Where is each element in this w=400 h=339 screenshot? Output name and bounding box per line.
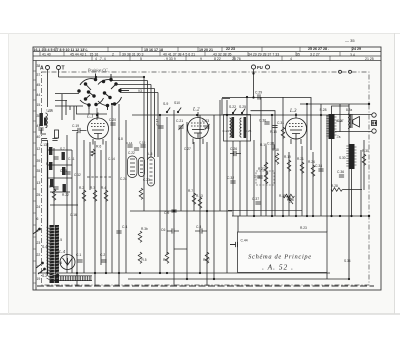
wire PU down: [253, 70, 255, 98]
svg-text:25: 25: [37, 193, 41, 197]
chassis dashed bus (bottom heavy dashed line): [37, 285, 374, 287]
capacitor C.37: [252, 197, 261, 204]
left component stack: [48, 147, 78, 205]
svg-text:R.16: R.16: [260, 143, 267, 147]
potentiometer R.26: [279, 194, 294, 204]
wire HT bus left: [130, 210, 232, 212]
switch S-9: [163, 102, 170, 113]
svg-text:C.2: C.2: [100, 253, 105, 257]
oscillator coil form 1: [128, 156, 138, 178]
wire v266: [265, 146, 267, 216]
wire bundle b4: [154, 89, 156, 158]
svg-text:21 25: 21 25: [365, 57, 374, 61]
capacitor C.26: [230, 147, 241, 156]
svg-text:S.4: S.4: [42, 245, 47, 249]
svg-text:C.19: C.19: [72, 124, 79, 128]
resistor R.3: [90, 186, 97, 201]
svg-text:.7a: .7a: [336, 135, 341, 139]
svg-text:3 2 27: 3 2 27: [310, 52, 320, 56]
wire v247: [246, 97, 248, 216]
wire v214: [213, 115, 215, 279]
wire v240: [239, 141, 241, 216]
wire wafer2 upper-right lead: [116, 84, 151, 86]
wire bundle b3: [150, 85, 152, 158]
svg-text:T: T: [62, 66, 65, 72]
outer drawing border frame: [33, 47, 381, 290]
wire nested loop 5: [73, 106, 75, 120]
svg-text:C.23: C.23: [202, 119, 209, 123]
step wire near C8: [174, 210, 302, 249]
title box: [238, 232, 328, 273]
svg-text:L.R: L.R: [48, 109, 54, 113]
svg-text:R.27: R.27: [258, 167, 265, 171]
resistor R.2: [79, 186, 86, 201]
rotary wafer switch W1: [78, 74, 104, 110]
capacitor C.32: [227, 176, 236, 183]
svg-text:C6: C6: [161, 228, 165, 232]
terminal PU pair: [251, 65, 269, 70]
svg-text:C.11: C.11: [68, 157, 75, 161]
capacitor C.1: [76, 253, 83, 262]
wire v207: [206, 142, 208, 286]
wire v277: [251, 111, 276, 216]
capacitor C.2: [100, 253, 107, 262]
svg-text:C.24: C.24: [120, 177, 127, 181]
svg-text:6: 6: [37, 217, 39, 221]
resistor R.13: [196, 194, 203, 208]
wire bundle b2: [147, 81, 149, 161]
svg-text:C.16: C.16: [70, 213, 77, 217]
wire top bus: [59, 76, 145, 78]
svg-text:S.7: S.7: [60, 147, 65, 151]
wire dashed AVC segment: [87, 176, 112, 178]
wire IF1 top lead: [222, 99, 230, 115]
terminal A: [40, 66, 50, 72]
svg-text:R.3: R.3: [90, 186, 95, 190]
wire v67: [66, 135, 68, 273]
svg-text:R.2: R.2: [79, 186, 84, 190]
svg-text:S.8: S.8: [118, 137, 123, 141]
svg-text:R.27: R.27: [203, 258, 210, 262]
svg-text:12: 12: [37, 147, 41, 151]
wire HT bus right: [232, 215, 369, 217]
top ruler row 2 numbers: [42, 52, 355, 56]
svg-text:C.15: C.15: [60, 169, 67, 173]
inner dash-dot border: [42, 72, 370, 285]
resistor R.18: [272, 148, 279, 164]
svg-text:C.20: C.20: [109, 118, 116, 122]
wire v307: [306, 104, 308, 216]
dial lamps strip: [54, 276, 92, 281]
svg-text:C.22: C.22: [128, 151, 135, 155]
svg-text:C.14: C.14: [126, 141, 133, 145]
svg-text:39: 39: [37, 159, 41, 163]
wire v289: [288, 152, 290, 216]
svg-text:V3: V3: [138, 89, 142, 93]
svg-text:S.34: S.34: [344, 259, 351, 263]
svg-text:R.4: R.4: [101, 186, 106, 190]
wire wafer2 right lead a: [120, 88, 155, 90]
wire v313: [312, 152, 314, 216]
svg-text:40: 40: [37, 135, 41, 139]
wire v101: [100, 150, 102, 265]
svg-text:C.17: C.17: [156, 119, 160, 126]
svg-text:S.22: S.22: [229, 105, 236, 109]
svg-text:S.28: S.28: [320, 108, 327, 112]
wire heavy main vertical: [47, 143, 49, 273]
top ruler row 3 numbers: [95, 57, 374, 61]
wire v364: [363, 140, 365, 190]
tube L2: [188, 108, 209, 145]
svg-text:C.32: C.32: [227, 176, 234, 180]
resistor R.6 below L1: [91, 145, 101, 157]
svg-text:C.28: C.28: [267, 142, 274, 146]
wire v220: [219, 100, 221, 211]
IF transformer T2: [320, 108, 343, 139]
resistor R.3b: [138, 227, 148, 242]
svg-text:35: 35: [37, 169, 41, 173]
svg-text:5: 5: [140, 57, 142, 61]
svg-text:C.9: C.9: [164, 211, 169, 215]
svg-text:4 .7. 4: 4 .7. 4: [95, 57, 106, 61]
resistor R.1 left: [49, 185, 56, 200]
switch S10: [174, 101, 181, 113]
wire nested loop 4: [69, 106, 71, 110]
rotary wafer switch W2: [98, 74, 129, 110]
svg-text:S.5: S.5: [57, 238, 62, 242]
svg-text:13: 13: [37, 181, 41, 185]
svg-text:A: A: [40, 66, 44, 72]
svg-text:C.23: C.23: [143, 178, 150, 182]
terminal T: [57, 66, 65, 72]
svg-text:S.27: S.27: [337, 119, 344, 123]
svg-text:C.37: C.37: [252, 197, 259, 201]
svg-text:37: 37: [37, 73, 41, 77]
svg-text:C.1: C.1: [76, 253, 81, 257]
svg-text:C.14: C.14: [108, 157, 115, 161]
svg-text:15: 15: [37, 103, 41, 107]
svg-text:. 9 33 9: . 9 33 9: [164, 57, 176, 61]
wire v227: [226, 100, 228, 273]
speaker: [337, 108, 359, 128]
wire A lead: [47, 70, 49, 108]
resistor R.27b: [203, 252, 210, 263]
svg-text:R.5: R.5: [142, 258, 147, 262]
svg-text:C.13: C.13: [40, 143, 47, 147]
wire T lead: [58, 70, 60, 78]
svg-text:R.18: R.18: [272, 148, 279, 152]
top ruler row 1 numbers: [34, 47, 362, 52]
vertical wires: [48, 70, 365, 287]
right output terminals: [372, 113, 377, 133]
svg-text:R.6: R.6: [96, 145, 101, 149]
svg-text:S.6: S.6: [57, 261, 62, 265]
wire grid bus: [132, 114, 329, 116]
wire AVC line: [300, 103, 369, 105]
svg-text:C.24: C.24: [223, 129, 230, 133]
svg-text:C.4: C.4: [122, 225, 127, 229]
svg-text:34 29 29 28 37 7 33: 34 29 29 28 37 7 33: [248, 52, 279, 56]
wire v90: [89, 142, 91, 190]
coil form L.5: [148, 157, 155, 186]
svg-text:8 22: 8 22: [214, 57, 221, 61]
tube L1 grid cap C.20: [109, 118, 116, 125]
capacitor C.4: [116, 225, 127, 233]
capacitor C.31: [272, 121, 284, 128]
resistor R.27 box: [254, 167, 274, 185]
resistor R.8 below coils: [139, 188, 143, 199]
svg-text:.43 32 38 35: .43 32 38 35: [212, 52, 232, 56]
svg-text:R.15: R.15: [270, 130, 277, 134]
svg-text:L.4: L.4: [58, 249, 66, 254]
svg-text:19 20 21: 19 20 21: [199, 48, 213, 52]
svg-text:C.21: C.21: [176, 119, 183, 123]
svg-text:R.17: R.17: [46, 162, 53, 166]
svg-text:2: 2: [112, 52, 114, 56]
wire v174: [173, 110, 175, 286]
svg-text:R.23: R.23: [300, 226, 307, 230]
wire v261: [260, 97, 262, 216]
wire v54: [53, 148, 55, 273]
wire v167: [166, 117, 168, 255]
capacitor C.12: [52, 139, 57, 141]
wire v361: [360, 150, 362, 216]
svg-text:. A. 52 .: . A. 52 .: [262, 263, 294, 272]
svg-text:C.44: C.44: [241, 239, 248, 243]
svg-text:41 40: 41 40: [42, 52, 51, 56]
wire PU line: [222, 98, 311, 151]
resistor R.24: [308, 160, 315, 176]
svg-text:44: 44: [37, 93, 41, 97]
svg-text:R.7: R.7: [188, 189, 193, 193]
wire C44 stub: [230, 216, 238, 245]
capacitor C9 on bus: [164, 210, 177, 215]
wire v340: [339, 104, 341, 132]
svg-text:C.8: C.8: [196, 225, 201, 229]
svg-text:R.30: R.30: [362, 149, 369, 153]
top ruler tick marks: [40, 47, 352, 61]
resistor R.21: [297, 157, 304, 173]
svg-text:R.24: R.24: [308, 160, 315, 164]
capacitor C.44 on box edge: [230, 239, 248, 248]
svg-text:S-9: S-9: [163, 102, 168, 106]
resistor R.9: [163, 252, 169, 263]
switch S13: [239, 105, 246, 114]
capacitor C.36: [337, 170, 344, 177]
svg-text:39 38 31 30 3: 39 38 31 30 3: [122, 52, 143, 56]
padder caps above coils: [126, 141, 146, 151]
wire v296: [295, 138, 297, 216]
svg-text:S.2: S.2: [42, 274, 47, 278]
svg-text:22 23: 22 23: [226, 47, 235, 51]
svg-text:45: 45: [37, 83, 41, 87]
wire v112: [111, 104, 113, 273]
svg-text:PU: PU: [257, 65, 263, 70]
oscillator coil form 2: [139, 158, 145, 177]
capacitor C6: [161, 228, 179, 234]
capacitor C.34: [315, 164, 324, 171]
wire v106: [105, 141, 107, 273]
svg-text:3.4: 3.4: [350, 53, 355, 57]
wire v321: [320, 104, 322, 216]
svg-text:— 35: — 35: [345, 38, 355, 43]
resistor R.16: [260, 143, 268, 173]
svg-text:25 76: 25 76: [232, 57, 241, 61]
svg-text:9: 9: [200, 57, 202, 61]
svg-text:Schéma de Principe: Schéma de Principe: [248, 254, 312, 261]
wire wafer left leads: [55, 94, 107, 120]
top ruler table lines: [33, 52, 381, 61]
svg-text:L.5: L.5: [148, 152, 153, 156]
resistor R.28 horizontal: [331, 184, 362, 191]
wire IF2 top corner: [332, 106, 350, 114]
wire speaker top: [335, 114, 373, 116]
svg-text:R.3b: R.3b: [141, 227, 148, 231]
svg-text:24 29: 24 29: [352, 47, 361, 51]
svg-text:L.2: L.2: [192, 108, 200, 113]
capacitor C.23 trimmer: [202, 119, 210, 130]
wire v72: [71, 150, 73, 273]
tube L4 rectifier: [58, 249, 75, 270]
power transformer: [42, 225, 62, 283]
output transformer: [336, 135, 357, 169]
svg-text:8.2a: 8.2a: [346, 108, 352, 112]
wire v272: [271, 115, 273, 216]
resistor R.30: [362, 149, 369, 165]
svg-text:C.29: C.29: [255, 91, 262, 95]
svg-text:35: 35: [296, 52, 300, 56]
wire v194: [193, 142, 195, 211]
svg-text:19: 19: [37, 277, 41, 281]
IF transformer T1 can: [223, 115, 252, 142]
wire v283: [282, 97, 284, 216]
svg-text:L.1: L.1: [86, 115, 94, 120]
svg-text:C.15: C.15: [139, 141, 146, 145]
wire box right stub: [326, 273, 328, 280]
wire v95: [94, 141, 96, 286]
wire v126: [125, 120, 127, 273]
svg-text:C.26: C.26: [230, 147, 237, 151]
left edge ruler numbers: [37, 64, 41, 281]
wire nested loop 2: [61, 94, 63, 120]
svg-text:C.12: C.12: [74, 173, 81, 177]
terminal pips on dash border: [339, 70, 342, 73]
svg-text:R.19: R.19: [284, 155, 291, 159]
resistor block R.1: [55, 130, 59, 138]
mains switch S1: [33, 228, 45, 274]
svg-text:22: 22: [37, 253, 41, 257]
wire v187: [186, 122, 188, 279]
capacitor C.17: [156, 119, 164, 128]
resistor R.19: [284, 155, 291, 171]
svg-text:R.26: R.26: [287, 198, 294, 202]
wire bundle b1: [143, 77, 145, 211]
capacitor C.21 trimmer: [176, 119, 184, 130]
wire wafer2 right lead b: [120, 92, 158, 94]
svg-text:25 26 27 28 .: 25 26 27 28 .: [308, 47, 329, 51]
wire v355: [351, 169, 353, 216]
wire v233: [232, 141, 234, 216]
capacitor C.19: [72, 124, 87, 133]
wire nested loop 3: [65, 100, 67, 115]
wire bundle b5: [157, 93, 159, 158]
tube L1: [86, 113, 109, 145]
svg-text:23: 23: [37, 241, 41, 245]
svg-text:C.25: C.25: [245, 129, 252, 133]
switch S12: [229, 105, 236, 114]
wire v119: [118, 104, 120, 286]
wire v334: [331, 139, 333, 216]
resistor R.5: [138, 252, 146, 263]
svg-text:16,1 2 3 4 5 6 7 8 9 10 11 12: 16,1 2 3 4 5 6 7 8 9 10 11 12 13¼: [34, 48, 89, 52]
wire wafer2 top lead: [111, 80, 148, 82]
wire v200: [199, 115, 201, 273]
wire v181: [180, 128, 182, 211]
wire v77: [76, 132, 78, 286]
svg-text:R.21: R.21: [297, 157, 304, 161]
svg-text:Position CC.: Position CC.: [87, 68, 109, 73]
wire v302: [301, 146, 303, 216]
svg-text:R.22: R.22: [62, 193, 69, 197]
capacitor C.8: [195, 225, 207, 234]
svg-text:24: 24: [37, 205, 41, 209]
capacitor C.29: [255, 91, 262, 100]
resistor R.15: [270, 127, 285, 138]
svg-text:C.33: C.33: [254, 175, 261, 179]
wire B+ bottom bus: [128, 104, 349, 279]
svg-text:4: 4: [290, 57, 292, 61]
svg-text:C.31: C.31: [277, 121, 284, 125]
svg-text:C.34: C.34: [315, 164, 322, 168]
left edge tick marks: [33, 71, 36, 283]
svg-text:40 41 37 38 4 5 6 21: 40 41 37 38 4 5 6 21: [163, 52, 195, 56]
svg-text:S.30: S.30: [339, 156, 346, 160]
wire speaker bottom: [335, 131, 372, 133]
capacitor C.10: [42, 139, 47, 141]
wire cathode bus: [38, 272, 330, 274]
resistor R.7: [188, 189, 196, 204]
antenna coil L.B: [38, 109, 52, 135]
resistor R.4: [101, 186, 108, 201]
svg-text:S10: S10: [174, 101, 180, 105]
svg-text:15 16 17 18: 15 16 17 18: [144, 48, 163, 52]
capacitor C.28: [267, 142, 274, 150]
wire v84: [83, 140, 85, 273]
wire antenna coil down: [47, 140, 49, 275]
svg-text:C.27: C.27: [184, 147, 191, 151]
wire v160: [159, 115, 161, 273]
wire v254: [253, 140, 255, 216]
svg-text:R.13: R.13: [196, 194, 203, 198]
left cluster labels: [40, 89, 351, 263]
wire v327: [326, 115, 328, 232]
main horizontal wires: [38, 77, 372, 279]
svg-text:45 44 43 1 . 15 16: 45 44 43 1 . 15 16: [70, 52, 98, 56]
svg-text:C.36: C.36: [337, 170, 344, 174]
tube L3: [286, 109, 307, 144]
capacitor C.30: [259, 119, 270, 125]
